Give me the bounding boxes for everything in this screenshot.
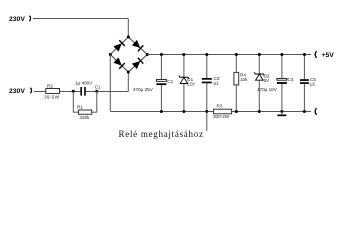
bridge rectifier frame <box>110 37 147 72</box>
node bridge bottom corner <box>127 71 130 74</box>
connector J1 top 230V <box>29 16 32 22</box>
wire node A down to R1 branch <box>72 92 74 113</box>
svg-text:12V: 12V <box>187 82 196 87</box>
svg-text:230V: 230V <box>9 16 25 23</box>
svg-text:470μ 25V: 470μ 25V <box>133 87 154 92</box>
zener D1 12V <box>183 55 185 78</box>
wire bridge left corner down (minus rail riser) <box>109 55 111 112</box>
svg-text:Relé meghajtásához: Relé meghajtásához <box>119 129 204 139</box>
wire C1 to node B <box>86 91 97 93</box>
capacitor C1 1u 400V <box>80 87 82 96</box>
wire node B right to bridge bottom corner riser <box>97 91 129 93</box>
svg-text:300-2W: 300-2W <box>213 114 230 119</box>
wire R2 to node A <box>60 91 81 93</box>
connector +5V output <box>315 51 316 58</box>
wire top 230V vertical down to bridge top <box>127 19 129 38</box>
wire bottom bus right segment <box>232 111 311 113</box>
capacitor C2 470u 25V <box>160 55 162 80</box>
connector J2 bottom 230V <box>30 88 33 94</box>
node B junction <box>95 90 98 93</box>
svg-text:R3: R3 <box>217 104 223 109</box>
connector minus output <box>315 108 316 115</box>
zener D2 5V <box>258 55 260 75</box>
wire top 230V horizontal <box>33 18 128 20</box>
wire R1 right up to node B <box>92 111 97 113</box>
bridge diode top-left <box>113 40 125 52</box>
node A junction <box>72 90 75 93</box>
wire 230V to R2 <box>34 91 46 93</box>
resistor R3 in bottom bus <box>214 109 232 114</box>
svg-text:C2: C2 <box>167 79 173 84</box>
resistor R4 10k <box>235 55 237 73</box>
svg-text:+5V: +5V <box>322 52 335 59</box>
capacitor C3 u1 <box>206 55 208 79</box>
node bridge right corner <box>146 53 149 56</box>
ground symbol below C4 <box>281 112 283 115</box>
svg-text:μ1: μ1 <box>310 82 316 87</box>
bridge diode top-right <box>132 40 144 52</box>
capacitor C5 u1 <box>303 55 305 80</box>
bridge diode bottom-right <box>132 58 144 70</box>
resistor R1 <box>79 110 92 114</box>
svg-text:C4: C4 <box>288 77 294 82</box>
svg-text:C1: C1 <box>95 84 101 89</box>
capacitor C4 470u 10V <box>281 55 283 79</box>
svg-text:1μ 400V: 1μ 400V <box>75 81 93 86</box>
wire relay tap down from bottom bus <box>206 112 208 132</box>
wire riser to bridge bottom corner <box>127 72 129 92</box>
wire to R1 left <box>73 111 78 113</box>
svg-text:330k: 330k <box>80 115 91 120</box>
svg-text:R1: R1 <box>77 105 83 110</box>
svg-text:10k: 10k <box>240 77 248 82</box>
node bridge top corner <box>127 36 130 39</box>
svg-text:5V: 5V <box>264 78 271 83</box>
svg-text:39-5W: 39-5W <box>44 94 60 99</box>
svg-text:μ1: μ1 <box>214 81 220 86</box>
svg-text:470μ 10V: 470μ 10V <box>257 87 278 92</box>
resistor R2 <box>46 89 60 94</box>
svg-text:230V: 230V <box>9 88 25 95</box>
svg-text:R2: R2 <box>47 84 53 89</box>
wire +5V top bus <box>147 54 311 56</box>
bridge diode bottom-left <box>113 57 125 69</box>
wire bottom bus left segment <box>110 111 213 113</box>
node bridge left corner <box>109 53 112 56</box>
